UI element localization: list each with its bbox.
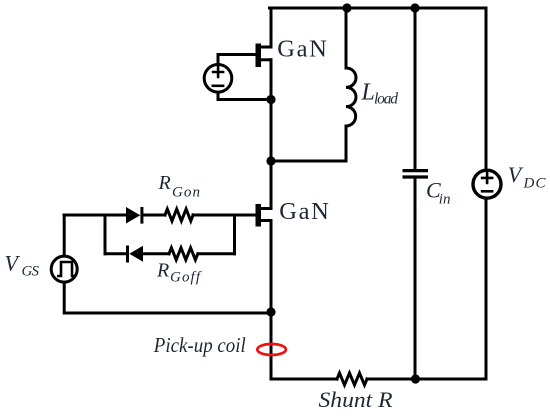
svg-text:Gon: Gon [172, 185, 200, 201]
svg-text:GS: GS [22, 263, 40, 279]
svg-text:R: R [156, 260, 169, 282]
svg-text:Shunt R: Shunt R [319, 387, 394, 412]
svg-text:Pick-up coil: Pick-up coil [153, 333, 246, 357]
svg-text:L: L [361, 79, 375, 105]
svg-text:GaN: GaN [277, 36, 327, 63]
svg-text:R: R [158, 172, 171, 194]
svg-text:in: in [439, 192, 451, 208]
svg-text:load: load [374, 91, 398, 108]
svg-text:Goff: Goff [170, 270, 202, 286]
svg-text:GaN: GaN [279, 198, 329, 225]
